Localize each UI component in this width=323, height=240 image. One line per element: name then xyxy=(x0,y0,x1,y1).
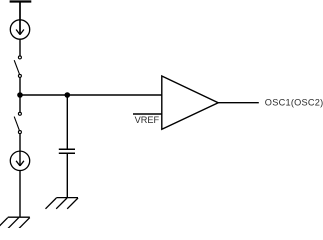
wire: VREF input to comparator xyxy=(133,113,162,115)
switch S2 xyxy=(14,112,21,133)
wire: S2 to current source I2 arrow shaft xyxy=(19,134,21,166)
ground (left) xyxy=(0,217,30,228)
wire: I1 to switch S1 xyxy=(19,39,21,56)
ground (capacitor) xyxy=(46,198,79,209)
wire: S1 to node A xyxy=(19,77,21,95)
capacitor C1 xyxy=(59,149,75,153)
wire: C1 to ground xyxy=(66,153,68,197)
power rail bar (VDD) xyxy=(10,0,32,2)
wire: comparator output xyxy=(218,102,259,104)
svg-text:OSC1(OSC2): OSC1(OSC2) xyxy=(265,97,323,107)
current source I1 xyxy=(10,20,29,39)
node A junction dot xyxy=(17,92,23,98)
current source I2 xyxy=(10,151,29,170)
svg-text:VREF: VREF xyxy=(135,115,160,125)
wire: main horizontal net to comparator input xyxy=(20,94,162,96)
comparator U1 xyxy=(162,76,218,129)
wire: rail to current source I1 arrow shaft xyxy=(19,2,21,35)
node B junction dot xyxy=(65,92,71,98)
wire: node B down to capacitor C1 xyxy=(66,95,68,149)
switch S1 xyxy=(14,56,21,78)
wire: I2 to ground xyxy=(19,171,21,218)
wire: node A down to switch S2 xyxy=(19,95,21,112)
